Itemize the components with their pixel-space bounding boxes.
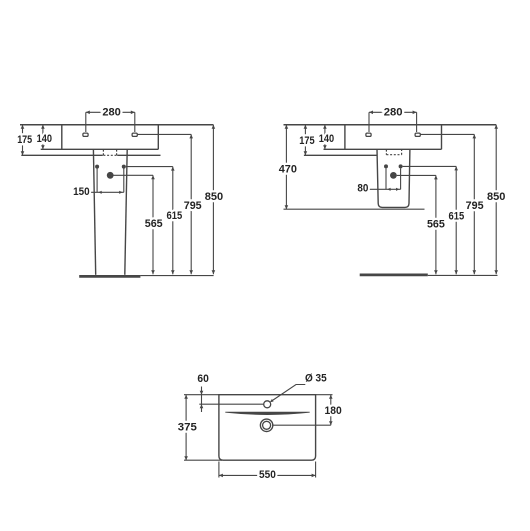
svg-text:150: 150 bbox=[73, 186, 90, 198]
svg-text:850: 850 bbox=[487, 191, 505, 203]
right view: basin lower ledge line bbox=[304, 154, 377, 156]
right view: upper right fixing dot bbox=[399, 164, 403, 168]
plan view: dimension 550 basin width bbox=[219, 469, 316, 481]
plan view: inner front edge curve bbox=[225, 412, 309, 414]
svg-text:565: 565 bbox=[427, 219, 446, 231]
plan view: basin outline with rounded front corners bbox=[219, 395, 316, 461]
right view: floor thick line bbox=[360, 274, 428, 277]
svg-text:140: 140 bbox=[37, 133, 52, 145]
plan view: left extension line for 550 bbox=[218, 462, 220, 478]
right view: bolt dot to 565 leader line bbox=[397, 174, 436, 176]
svg-text:615: 615 bbox=[449, 210, 465, 222]
svg-text:795: 795 bbox=[466, 200, 485, 212]
plan view: dimension 375 basin depth bbox=[178, 395, 198, 461]
left view: upper right fixing dot bbox=[122, 165, 126, 169]
plan view: waste to 180 leader line bbox=[273, 424, 331, 426]
right view: basin body outline bbox=[324, 125, 442, 150]
plan view: dimension 180 edge to waste bbox=[325, 395, 342, 426]
svg-text:375: 375 bbox=[178, 422, 198, 434]
svg-text:850: 850 bbox=[205, 191, 223, 203]
left view: pedestal base thick line bbox=[79, 275, 140, 278]
plan view: tap hole extension line for 60 bbox=[199, 403, 263, 405]
right view: left tap hole bbox=[366, 133, 371, 136]
left view: dimension 615 floor to fixing dots bbox=[167, 167, 183, 275]
right view: upper left fixing dot bbox=[384, 164, 388, 168]
svg-text:80: 80 bbox=[357, 183, 368, 195]
right view: floor thin extension line bbox=[428, 274, 498, 276]
right view: basin top edge with extension lines bbox=[284, 124, 497, 126]
svg-text:Ø 35: Ø 35 bbox=[305, 373, 327, 385]
right view: semi-pedestal outline bbox=[377, 149, 410, 207]
left view: basin lower ledge line left segment bbox=[21, 154, 103, 156]
left view: basin body outline bbox=[41, 125, 159, 150]
left view: dimension 140 basin front height bbox=[37, 125, 52, 150]
left view: dimension 280 between tap holes bbox=[86, 107, 135, 132]
right view: fixing dot to 615 leader line bbox=[403, 165, 457, 167]
plan view: diameter 35 leader line bbox=[270, 385, 305, 403]
left view: upper left fixing dot bbox=[95, 165, 99, 169]
plan view: bottom edge extension line for 375 bbox=[184, 459, 222, 461]
svg-text:795: 795 bbox=[184, 200, 203, 212]
right view: dimension 615 floor to fixing dots bbox=[449, 166, 465, 274]
plan view: tap hole circle bbox=[264, 401, 271, 408]
right view: dimension 565 floor to bolt hole bbox=[427, 175, 446, 274]
right view: bolt hole dot bbox=[390, 172, 397, 179]
left view: basin top edge with extension lines bbox=[20, 124, 213, 126]
left view: tap hole to 795 leader line bbox=[137, 133, 191, 135]
right view: semi-pedestal bottom extension line bbox=[284, 208, 425, 210]
right view: dimension 280 between tap holes bbox=[369, 107, 417, 132]
right view: dimension 175 basin total height bbox=[299, 125, 315, 156]
left view: dimension 150 between fixing points bbox=[73, 169, 124, 198]
left view: right tap hole bbox=[132, 133, 137, 136]
svg-text:550: 550 bbox=[259, 469, 276, 481]
left view: dimension 850 floor to rim bbox=[205, 125, 223, 274]
plan view: waste hole outer circle bbox=[260, 419, 272, 431]
svg-text:175: 175 bbox=[299, 135, 315, 147]
svg-text:175: 175 bbox=[17, 134, 33, 146]
left view: left tap hole bbox=[83, 133, 88, 136]
plan view: top edge extension line for 375 bbox=[184, 394, 219, 396]
svg-text:280: 280 bbox=[102, 107, 121, 119]
left view: dimension 565 floor to bolt hole bbox=[145, 175, 164, 274]
left view: basin lower ledge line right segment bbox=[117, 154, 160, 156]
plan view: waste hole inner circle bbox=[263, 421, 271, 429]
svg-text:565: 565 bbox=[145, 218, 164, 230]
svg-text:280: 280 bbox=[384, 107, 403, 119]
right view: dimension 140 basin front height bbox=[319, 125, 334, 150]
plan view: diameter 35 label bbox=[305, 373, 327, 385]
right view: dashed trap outline bbox=[386, 150, 401, 155]
left view: pedestal left edge bbox=[93, 149, 95, 274]
svg-text:60: 60 bbox=[197, 373, 208, 385]
plan view: right extension line for 550 bbox=[315, 462, 317, 478]
plan view: dimension 60 edge to tap hole bbox=[197, 373, 208, 412]
svg-text:615: 615 bbox=[167, 210, 183, 222]
left view: floor extension line bbox=[140, 275, 213, 277]
right view: dimension 80 between fixing points bbox=[357, 168, 400, 194]
svg-text:470: 470 bbox=[279, 163, 297, 175]
plan view: top edge extension line for 180 bbox=[316, 394, 333, 396]
right view: tap hole to 795 leader line bbox=[420, 133, 474, 135]
left view: fixing dot to 615 leader line bbox=[126, 166, 173, 168]
right view: dimension 470 rim to semi-pedestal bottom bbox=[279, 125, 297, 209]
right view: right tap hole bbox=[415, 133, 420, 136]
left view: bolt dot to 565 leader line bbox=[114, 174, 154, 176]
right view: dimension 850 floor to rim bbox=[487, 125, 505, 274]
left view: dimension 795 floor to tap hole bbox=[184, 134, 203, 274]
svg-text:140: 140 bbox=[319, 133, 334, 145]
left view: dashed trap outline bbox=[103, 150, 116, 156]
left view: bolt hole dot bbox=[107, 172, 114, 179]
right view: dimension 795 floor to tap hole bbox=[466, 134, 485, 274]
left view: pedestal right edge bbox=[125, 149, 127, 274]
svg-text:180: 180 bbox=[325, 405, 342, 417]
left view: dimension 175 basin total height bbox=[17, 125, 33, 156]
